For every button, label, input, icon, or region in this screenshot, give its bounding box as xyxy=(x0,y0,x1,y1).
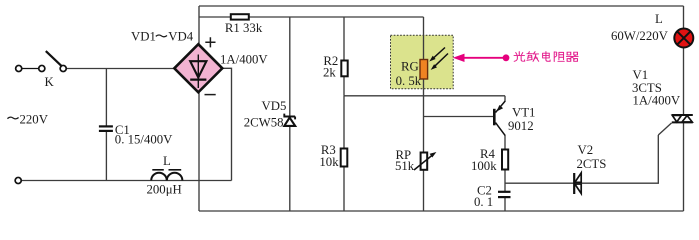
RG light arrow 2 xyxy=(433,54,448,68)
wire RG drop from y17 xyxy=(423,17,425,60)
switch K lever xyxy=(46,51,62,66)
wire top rail (DC+ to lamp) xyxy=(199,5,684,7)
svg-text:1A/400V: 1A/400V xyxy=(220,53,268,67)
transistor VT1 base bar xyxy=(493,109,496,126)
zener diode VD5 triangle xyxy=(284,118,295,126)
wire left edge top (top rail to bridge +) xyxy=(198,6,200,45)
diac V2 bar xyxy=(573,173,575,194)
wire bridge right AC riser xyxy=(222,68,232,180)
svg-text:9012: 9012 xyxy=(508,119,534,133)
wire R2 bottom to emitter rail xyxy=(343,76,345,96)
wire RG bottom through base node to RP xyxy=(423,79,425,153)
svg-text:V2: V2 xyxy=(578,143,594,157)
svg-text:0. 1: 0. 1 xyxy=(474,195,493,209)
potentiometer RP arrow xyxy=(414,155,433,170)
RG light arrow 1 xyxy=(432,48,445,60)
wire R4 bottom to C2 top xyxy=(504,170,506,192)
transistor VT1 collector diagonal xyxy=(496,123,506,136)
wire R3 top from emitter rail xyxy=(343,96,345,149)
wire R1 rail y17 xyxy=(199,16,424,18)
svg-text:60W/220V: 60W/220V xyxy=(611,29,669,43)
wire emitter rail y96 xyxy=(344,95,505,97)
wire VD5 rail lower xyxy=(289,126,291,211)
wire diac to gate riser xyxy=(582,135,659,183)
svg-text:200μH: 200μH xyxy=(147,183,182,197)
wire bottom rail DC- xyxy=(199,210,684,212)
svg-text:220V: 220V xyxy=(20,112,49,126)
wire gate diagonal to triac xyxy=(658,123,671,135)
triac V1 right triangle xyxy=(682,116,692,123)
wire collector to R4 xyxy=(504,136,506,150)
triac V1 left triangle xyxy=(672,115,681,122)
potentiometer RP body xyxy=(421,153,428,170)
wire C2 node to diac V2 xyxy=(505,182,573,184)
wire R3 bottom to DC- xyxy=(343,167,345,212)
svg-text:100k: 100k xyxy=(471,159,497,173)
svg-text:L: L xyxy=(655,12,663,26)
bridge inner diode triangle xyxy=(190,61,206,77)
svg-text:2CW58: 2CW58 xyxy=(244,116,284,130)
svg-text:VT1: VT1 xyxy=(512,106,535,120)
photoresistor RG body xyxy=(420,60,428,80)
label ~220V tilde xyxy=(7,117,18,119)
lamp L symbol xyxy=(674,29,693,48)
svg-text:K: K xyxy=(45,75,55,89)
wire RP bottom to DC- xyxy=(423,170,425,211)
svg-text:1A/400V: 1A/400V xyxy=(633,94,681,108)
bridge inner diode wire xyxy=(197,55,199,89)
transistor VT1 emitter arrowhead (PNP) xyxy=(497,105,504,112)
wire C1 bottom drop xyxy=(105,132,107,181)
bridge minus sign xyxy=(205,94,216,96)
bridge rectifier VD1-VD4 diamond xyxy=(174,44,222,92)
svg-text:VD4: VD4 xyxy=(168,29,193,43)
switch K fixed contact circle xyxy=(39,65,45,71)
inductor L choke humps xyxy=(151,173,182,181)
inductor L core dashes xyxy=(152,169,181,171)
svg-text:0. 15/400V: 0. 15/400V xyxy=(115,133,173,147)
diac V2 upper triangle xyxy=(575,173,581,183)
wire VD5 rail upper xyxy=(289,17,291,116)
wire R2 drop from y17 xyxy=(343,17,345,61)
photoresistor RG wire inside box xyxy=(423,35,425,89)
bridge inner diode bar xyxy=(190,78,206,80)
resistor R2 xyxy=(341,61,347,77)
svg-text:2CTS: 2CTS xyxy=(577,157,607,171)
wire AC top from switch to bridge xyxy=(66,68,175,70)
wire right edge lower (triac to bottom rail) xyxy=(683,123,685,211)
transistor VT1 emitter diagonal xyxy=(496,101,506,113)
wire C1 top drop xyxy=(105,69,107,126)
wire base wire y116.5 xyxy=(424,116,494,118)
resistor R1 xyxy=(231,14,249,19)
svg-text:51k: 51k xyxy=(395,159,415,173)
capacitor C1 xyxy=(99,126,113,130)
svg-text:RG: RG xyxy=(401,60,419,74)
switch K moving contact circle xyxy=(60,65,66,71)
resistor R4 xyxy=(502,150,508,170)
svg-text:VD5: VD5 xyxy=(262,99,287,113)
svg-text:VD1: VD1 xyxy=(131,29,156,43)
capacitor C2 xyxy=(498,192,511,197)
wire left edge bottom (bridge - to bottom rail) xyxy=(198,92,200,212)
AC bottom terminal circle xyxy=(15,177,21,183)
wire between switch terminals xyxy=(22,68,39,70)
callout arrow photoresistor xyxy=(463,57,506,59)
svg-text:0. 5k: 0. 5k xyxy=(396,74,422,88)
wire emitter corner drop xyxy=(504,96,506,102)
bridge plus sign xyxy=(205,37,215,47)
svg-text:R1 33k: R1 33k xyxy=(225,21,263,35)
svg-text:10k: 10k xyxy=(319,155,339,169)
wire right edge mid (lamp to triac V1) xyxy=(683,48,685,114)
wire right edge upper (top rail to lamp) xyxy=(683,6,685,29)
triac V1 top bar xyxy=(672,114,693,116)
diac V2 lower triangle xyxy=(575,184,581,194)
callout text guang min dian zu qi (hand-drawn hanzi) xyxy=(514,52,578,62)
photoresistor RG highlight box xyxy=(391,35,454,89)
svg-text:L: L xyxy=(163,154,171,168)
wire AC bottom from terminal to riser xyxy=(21,180,231,182)
triac V1 bottom bar xyxy=(672,121,693,123)
switch K terminal circle left xyxy=(16,65,22,71)
svg-text:V1: V1 xyxy=(633,68,649,82)
resistor R3 xyxy=(341,149,348,167)
zener diode VD5 bar xyxy=(283,114,295,120)
svg-text:2k: 2k xyxy=(323,65,336,79)
wire C2 bottom to DC- xyxy=(504,198,506,212)
